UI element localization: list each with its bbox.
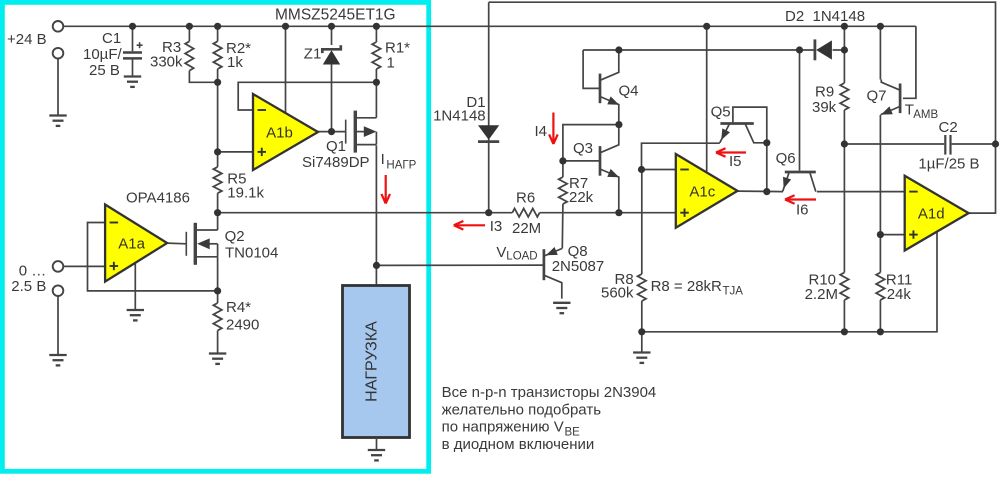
svg-text:A1c: A1c bbox=[689, 183, 715, 200]
svg-text:2490: 2490 bbox=[226, 317, 259, 334]
svg-text:НАГРУЗКА: НАГРУЗКА bbox=[364, 321, 381, 402]
svg-text:Q3: Q3 bbox=[573, 140, 593, 157]
svg-text:560k: 560k bbox=[601, 285, 634, 302]
svg-text:I5: I5 bbox=[729, 153, 742, 170]
svg-text:A1a: A1a bbox=[118, 236, 145, 253]
svg-text:I4: I4 bbox=[535, 123, 548, 140]
svg-text:по напряжению V: по напряжению V bbox=[442, 419, 564, 436]
svg-text:R8 = 28kR: R8 = 28kR bbox=[651, 278, 722, 295]
svg-text:D2 1N4148: D2 1N4148 bbox=[785, 8, 865, 25]
svg-text:Q4: Q4 bbox=[619, 82, 639, 99]
svg-text:Q2: Q2 bbox=[225, 228, 245, 245]
svg-text:C1: C1 bbox=[102, 30, 121, 47]
svg-text:V: V bbox=[496, 244, 506, 261]
svg-text:19.1k: 19.1k bbox=[227, 185, 264, 202]
svg-text:Все n-p-n транзисторы 2N3904: Все n-p-n транзисторы 2N3904 bbox=[442, 384, 657, 401]
svg-text:2.5 В: 2.5 В bbox=[11, 278, 46, 295]
svg-text:AMB: AMB bbox=[913, 109, 938, 121]
svg-text:0 …: 0 … bbox=[19, 262, 47, 279]
svg-text:Z1: Z1 bbox=[304, 46, 322, 63]
svg-text:Q7: Q7 bbox=[867, 88, 887, 105]
svg-text:Q6: Q6 bbox=[776, 150, 796, 167]
svg-text:желательно подобрать: желательно подобрать bbox=[442, 401, 602, 418]
svg-text:1µF/25 В: 1µF/25 В bbox=[918, 155, 979, 172]
svg-text:330k: 330k bbox=[150, 54, 183, 71]
svg-text:НАГР: НАГР bbox=[386, 160, 416, 172]
svg-text:1: 1 bbox=[387, 55, 395, 72]
svg-text:TN0104: TN0104 bbox=[225, 245, 278, 262]
svg-text:Q5: Q5 bbox=[711, 103, 731, 120]
svg-text:A1d: A1d bbox=[918, 206, 945, 223]
svg-text:2.2M: 2.2M bbox=[805, 286, 838, 303]
svg-text:TJA: TJA bbox=[723, 286, 744, 298]
svg-text:OPA4186: OPA4186 bbox=[126, 190, 190, 207]
svg-text:24k: 24k bbox=[887, 286, 912, 303]
svg-text:10µF/: 10µF/ bbox=[83, 46, 122, 63]
svg-text:I6: I6 bbox=[796, 202, 809, 219]
svg-text:LOAD: LOAD bbox=[506, 251, 537, 263]
svg-text:1k: 1k bbox=[227, 54, 243, 71]
svg-text:C2: C2 bbox=[939, 119, 958, 136]
svg-text:в диодном включении: в диодном включении bbox=[442, 436, 595, 453]
svg-text:Q1: Q1 bbox=[326, 138, 346, 155]
svg-text:Si7489DP: Si7489DP bbox=[302, 154, 370, 171]
svg-text:A1b: A1b bbox=[266, 125, 293, 142]
svg-text:R4*: R4* bbox=[226, 299, 251, 316]
svg-text:MMSZ5245ET1G: MMSZ5245ET1G bbox=[275, 6, 396, 23]
svg-text:39k: 39k bbox=[812, 99, 837, 116]
svg-text:1N4148: 1N4148 bbox=[433, 107, 486, 124]
svg-text:I: I bbox=[381, 151, 385, 168]
svg-text:R9: R9 bbox=[815, 84, 834, 101]
svg-text:2N5087: 2N5087 bbox=[552, 258, 605, 275]
svg-text:22k: 22k bbox=[569, 189, 594, 206]
svg-text:22M: 22M bbox=[512, 220, 541, 237]
svg-text:+24 В: +24 В bbox=[7, 31, 47, 48]
svg-text:I3: I3 bbox=[490, 218, 503, 235]
svg-text:R6: R6 bbox=[516, 190, 535, 207]
svg-text:25 В: 25 В bbox=[89, 62, 120, 79]
